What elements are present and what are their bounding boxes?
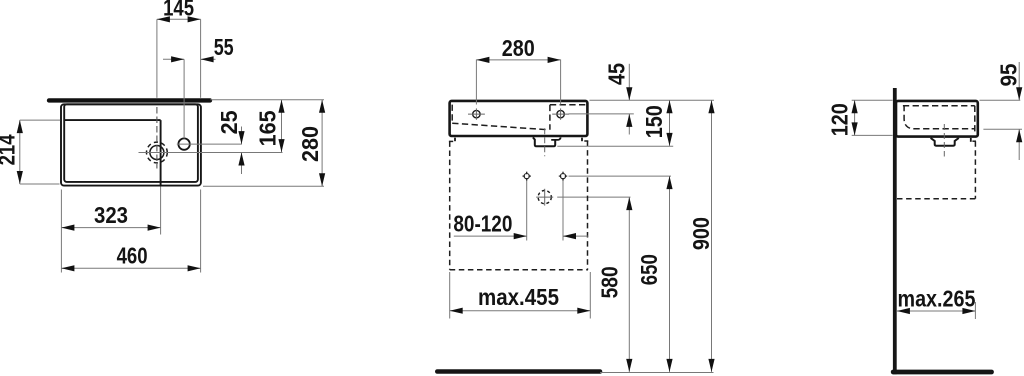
svg-text:45: 45 bbox=[604, 63, 630, 85]
dimension 80-120 bbox=[454, 235, 527, 237]
svg-text:214: 214 bbox=[0, 134, 19, 165]
svg-text:95: 95 bbox=[995, 63, 1021, 86]
dimension 165 bbox=[281, 100, 283, 152]
hidden deck edge (dashed horizontal) bbox=[550, 104, 586, 106]
hidden bowl left+bottom (dashed, rounded corner) bbox=[904, 105, 975, 129]
floor line thick (front) bbox=[437, 369, 600, 374]
bowl/deck divider (plan) bbox=[160, 120, 162, 186]
mounting hole left bbox=[523, 172, 531, 181]
dimension 150 bbox=[669, 100, 671, 146]
hidden bowl top edge (dashed) bbox=[903, 105, 975, 107]
floor line thin extension bbox=[600, 372, 714, 374]
dimension max.265 bbox=[897, 310, 976, 312]
extension line right-edge down bbox=[200, 190, 202, 273]
hidden bowl right edge (dashed) bbox=[974, 106, 976, 134]
siphon trap (front) bbox=[533, 137, 555, 146]
dimension max.455 bbox=[450, 310, 591, 312]
max455 extension left bbox=[449, 272, 451, 319]
siphon trap (side) bbox=[931, 138, 959, 146]
wall line (thick bar behind basin) bbox=[49, 98, 210, 102]
dashed furniture box bottom (side) bbox=[897, 198, 975, 200]
max265 extension right bbox=[974, 302, 976, 319]
svg-text:80-120: 80-120 bbox=[453, 211, 512, 237]
drain centerline (front, dashed) bbox=[544, 128, 546, 156]
mounting hole extension verticals bbox=[526, 181, 528, 241]
mounting hole right bbox=[559, 172, 567, 181]
dimension 460 bbox=[61, 267, 200, 269]
drain solid circle bbox=[150, 146, 164, 160]
hidden bowl left edge (dashed) bbox=[451, 105, 453, 123]
dimension 55 bbox=[163, 58, 184, 60]
dashed furniture box bottom bbox=[450, 269, 588, 271]
bowl bottom extension right bbox=[983, 128, 1022, 130]
tap extension line vertical bbox=[183, 59, 185, 138]
tap hole cross right bbox=[552, 108, 569, 119]
svg-text:120: 120 bbox=[827, 103, 853, 136]
drain centerline (side, dashed) bbox=[943, 124, 945, 157]
svg-text:460: 460 bbox=[117, 243, 148, 269]
drain centerline horizontal bbox=[139, 152, 283, 154]
trap bottom extension line bbox=[557, 145, 673, 147]
dimension 323 bbox=[61, 227, 160, 229]
dimension 580 bbox=[628, 197, 630, 372]
dimension 145 bbox=[157, 18, 201, 20]
dimension 25 bbox=[241, 127, 243, 145]
basin bowl inner rect (plan) bbox=[64, 104, 198, 182]
svg-text:580: 580 bbox=[597, 266, 623, 298]
basin body (front) bbox=[450, 101, 588, 136]
dimension 280 (plan) bbox=[321, 100, 323, 186]
top extension line right (side) bbox=[980, 99, 1021, 101]
floor line (side, thick horizontal) bbox=[893, 370, 991, 375]
svg-text:900: 900 bbox=[688, 217, 714, 250]
hidden deck step (dashed vertical) bbox=[549, 105, 551, 130]
trap outlet step bbox=[551, 137, 561, 140]
extension line drain-center up bbox=[156, 19, 158, 98]
dimension 650 bbox=[669, 176, 671, 372]
basin outer rim (plan) bbox=[61, 104, 201, 185]
extension line bowl-right down bbox=[160, 187, 162, 235]
dimension 95 bbox=[1018, 62, 1020, 100]
drain centerline vertical (dashed) bbox=[156, 107, 158, 169]
corner tick right bbox=[581, 138, 583, 142]
tap level extension line bbox=[569, 113, 634, 115]
dashed furniture box left edge bbox=[449, 140, 453, 142]
svg-text:55: 55 bbox=[214, 34, 234, 60]
extension line holes to 650 dim bbox=[569, 175, 672, 177]
corner tick (side) bbox=[970, 138, 972, 142]
svg-text:280: 280 bbox=[502, 35, 535, 61]
120 extension lines bbox=[852, 99, 893, 101]
svg-text:323: 323 bbox=[94, 202, 128, 228]
extension line drain to 580 dim bbox=[557, 196, 630, 198]
basin body (side) bbox=[896, 101, 978, 137]
extension line left-edge down bbox=[60, 190, 62, 273]
drain cross (front) bbox=[536, 189, 553, 206]
extension line back-edge right bbox=[211, 99, 325, 101]
dimension 214 bbox=[19, 120, 21, 184]
svg-text:165: 165 bbox=[255, 110, 281, 146]
top extension line right bbox=[590, 99, 715, 101]
svg-text:145: 145 bbox=[163, 0, 194, 21]
extension line right-edge up bbox=[200, 19, 202, 98]
dimension 120 bbox=[854, 100, 856, 135]
tap hole circle bbox=[178, 138, 189, 149]
svg-text:max.455: max.455 bbox=[478, 284, 559, 310]
bowl back edge (plan) bbox=[64, 119, 160, 121]
svg-text:280: 280 bbox=[297, 126, 323, 162]
max455 extension right bbox=[589, 272, 591, 319]
drain dashed circle bbox=[147, 142, 168, 163]
svg-text:25: 25 bbox=[216, 110, 242, 134]
tap centerline horizontal bbox=[177, 143, 242, 145]
extension lines 214 left bbox=[20, 119, 60, 121]
dimension 900 bbox=[711, 100, 713, 372]
svg-text:650: 650 bbox=[636, 254, 662, 285]
tap hole extension verticals bbox=[475, 60, 477, 105]
dashed furniture box right edge bbox=[584, 140, 588, 142]
dashed furniture box right edge (side) bbox=[972, 140, 976, 142]
tap hole cross left bbox=[468, 108, 485, 119]
svg-text:max.265: max.265 bbox=[898, 286, 976, 312]
dimension 45 bbox=[628, 64, 630, 100]
hidden bowl bottom slope (dashed) bbox=[452, 123, 547, 130]
extension line front-edge right bbox=[203, 185, 324, 187]
corner tick left bbox=[454, 138, 456, 142]
dimension 280 (front) bbox=[476, 59, 560, 61]
wall line (side, thick vertical) bbox=[893, 88, 897, 374]
svg-text:150: 150 bbox=[641, 105, 667, 138]
